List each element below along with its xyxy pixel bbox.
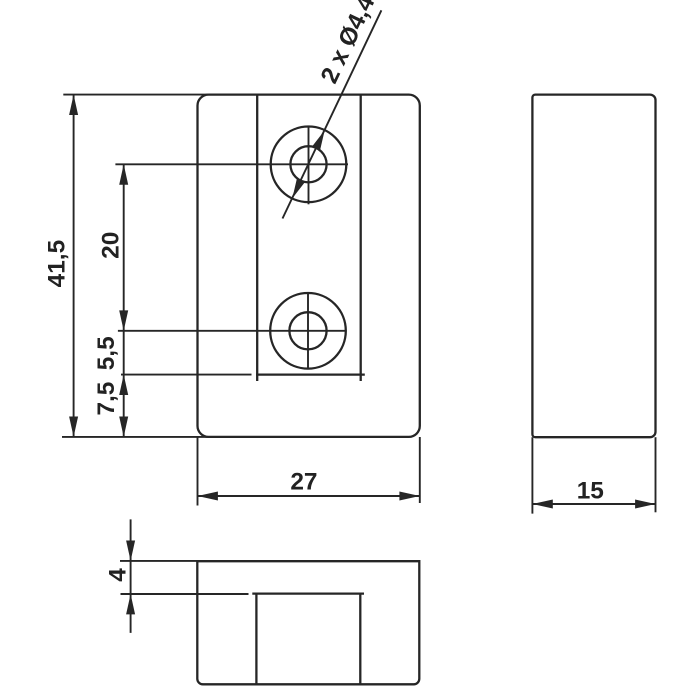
svg-text:27: 27 [290, 468, 317, 495]
extension line channel floor [121, 374, 252, 376]
extension line 15 right [655, 437, 657, 512]
side view outline [532, 95, 655, 438]
bottom hole outer circle [270, 293, 346, 369]
extension line 27 right [419, 437, 421, 503]
step edge right (front view) [360, 95, 362, 381]
bottom hole vertical centerline [307, 293, 309, 370]
extension line 15 left [531, 437, 533, 513]
step edge left (front view) [256, 95, 258, 381]
svg-text:2 x Ø4,4: 2 x Ø4,4 [316, 0, 381, 88]
arrow 7,5 top [119, 375, 128, 395]
arrow leader lower [292, 178, 305, 198]
dimension line 27 [198, 495, 420, 497]
arrow leader upper [312, 130, 325, 150]
svg-text:15: 15 [577, 477, 604, 504]
svg-text:20: 20 [98, 232, 125, 259]
dimension line 4 [130, 519, 132, 633]
bottom hole inner circle [289, 312, 326, 349]
bottom view outline [197, 561, 419, 684]
leader line 2x d4,4 [283, 10, 382, 218]
arrow 4 bottom [126, 594, 135, 614]
arrow 15 right [635, 500, 655, 509]
arrow 20 top [119, 164, 128, 184]
centerline ext bottom hole [118, 330, 347, 332]
top hole inner circle [290, 146, 326, 182]
arrow 41,5 top [69, 95, 78, 115]
arrow 4 top [126, 541, 135, 561]
arrow 20 bottom [119, 310, 128, 330]
svg-text:4: 4 [105, 568, 132, 582]
svg-text:41,5: 41,5 [44, 240, 71, 287]
dimension line 15 [532, 503, 655, 505]
arrow 27 right [399, 492, 419, 501]
channel floor line (front view) [256, 373, 365, 375]
channel top line (bottom view) [252, 592, 364, 594]
channel edge left (bottom view) [255, 594, 257, 685]
svg-text:7,5: 7,5 [93, 382, 120, 416]
top hole outer circle [271, 127, 347, 203]
arrow 7,5 bottom [119, 417, 128, 437]
arrow 15 left [532, 500, 552, 509]
channel edge right (bottom view) [359, 594, 361, 685]
top hole vertical centerline [308, 126, 310, 204]
extension line 4 bottom [121, 593, 249, 595]
dimension line 20/5,5/7,5 [123, 164, 125, 437]
front view outline [198, 95, 420, 437]
extension line bottom (41,5) [62, 436, 208, 438]
arrow 27 left [198, 492, 218, 501]
extension line 27 left [197, 437, 199, 506]
svg-text:5,5: 5,5 [93, 336, 120, 370]
centerline ext top hole [115, 163, 348, 165]
extension line 4 top [120, 560, 198, 562]
extension line top (41,5) [63, 94, 208, 96]
arrow 41,5 bottom [69, 417, 78, 437]
dimension line 41,5 [73, 95, 75, 437]
